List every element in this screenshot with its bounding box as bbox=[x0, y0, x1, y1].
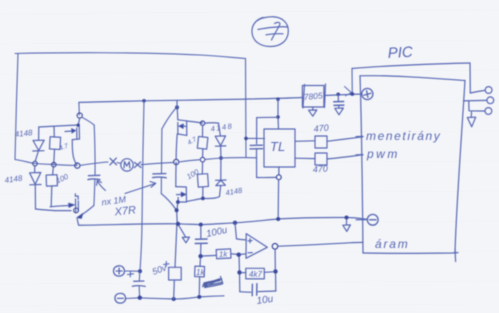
resistor R6 470 lower bbox=[295, 153, 363, 165]
svg-text:TL: TL bbox=[270, 139, 285, 154]
svg-text:menetirány: menetirány bbox=[366, 129, 441, 143]
feedback loop bbox=[239, 249, 276, 296]
wire minus circle to rail bbox=[126, 297, 140, 300]
battery symbol bbox=[128, 271, 146, 297]
transistor Q4 N-FET bottom-right bbox=[176, 162, 203, 223]
wire: battery + vertical bbox=[140, 101, 144, 271]
X mark 2 bbox=[134, 162, 141, 168]
wire: source node diagonal to cap string bbox=[82, 117, 95, 125]
X mark 1 bbox=[110, 158, 117, 165]
svg-text:4148: 4148 bbox=[14, 128, 33, 139]
PIC right pins bbox=[464, 97, 494, 127]
capacitor decoupling at 7805 output bbox=[334, 93, 344, 115]
plus circle bbox=[114, 266, 125, 276]
page number 7 circled bbox=[252, 17, 288, 47]
wire: outer box bottom to diode junction bbox=[15, 160, 35, 164]
resistor R5 470 upper bbox=[295, 136, 363, 148]
wire opamp output to PIC bbox=[278, 243, 352, 247]
node dot right output top bbox=[174, 159, 179, 164]
capacitor C-right string upper bbox=[161, 129, 163, 173]
resistor R2 100 left bbox=[46, 167, 57, 207]
node: bus-battery junction bbox=[142, 99, 146, 103]
diode D2 left bottom 4148 bbox=[30, 166, 55, 211]
crossed out text bbox=[203, 277, 223, 288]
node circle gate row left bbox=[74, 208, 79, 213]
arrowhead mark on bus bbox=[345, 87, 352, 96]
svg-text:pwm: pwm bbox=[366, 147, 400, 161]
resistor R4 100 right bbox=[197, 162, 208, 196]
outer feedback box wire (left/top/right) bbox=[15, 53, 246, 160]
node circle mid right resistor bbox=[200, 157, 205, 162]
diode D1 left top 4148 bbox=[33, 127, 44, 161]
bottom rail bbox=[140, 296, 224, 299]
svg-text:470: 470 bbox=[313, 122, 329, 134]
transistor Q3 P-FET top-right bbox=[176, 109, 202, 160]
transistor Q2 N-FET bottom-left bbox=[50, 194, 94, 225]
node dot N-FET source bbox=[176, 200, 180, 204]
wire: right source diagonal to cap bbox=[162, 109, 176, 129]
capacitor C-left vertical string bbox=[93, 125, 96, 175]
minus circle bbox=[115, 293, 126, 303]
diode D3 right top 4148 bbox=[205, 123, 226, 156]
wire opamp plus input from bus bbox=[235, 223, 246, 240]
resistor R8 1k vertical bbox=[195, 258, 205, 294]
bus continues after 7805 to plus bbox=[324, 94, 362, 96]
svg-text:7805: 7805 bbox=[303, 90, 323, 102]
PIC wire stubs left bbox=[352, 136, 367, 242]
diode D4 right bottom 4148 bbox=[203, 160, 226, 198]
node: bus-right-bridge junction bbox=[175, 105, 179, 109]
output row left wire with node circles bbox=[33, 161, 80, 168]
wire: corner down to source node bbox=[78, 102, 80, 115]
wire: cap diagonal to N-FET source node bbox=[161, 194, 176, 210]
svg-text:1k: 1k bbox=[196, 268, 205, 277]
wire: bus junction up to PIC outer top wire bbox=[351, 68, 353, 94]
wire: outer box right to TL input bbox=[246, 137, 265, 139]
svg-text:1k: 1k bbox=[219, 250, 229, 259]
inner top bus wire bbox=[79, 98, 302, 103]
motor M circle bbox=[121, 159, 133, 171]
svg-text:4k7: 4k7 bbox=[249, 270, 262, 279]
annotation nx 1M X7R with arrows bbox=[97, 181, 156, 194]
resistor R3 4.7 right bbox=[197, 121, 208, 157]
capacitor C-left plates bbox=[88, 174, 99, 176]
node dot below 100u bbox=[198, 254, 202, 258]
resistor R9 4k7 feedback bbox=[242, 268, 274, 279]
svg-text:áram: áram bbox=[375, 237, 410, 251]
ground arrow right bbox=[343, 220, 351, 232]
minus terminal circle bbox=[367, 214, 378, 225]
wire plus circle to battery bbox=[125, 270, 140, 272]
node: bus-TL junction bbox=[276, 97, 280, 101]
resistor R1 4.7 left bbox=[49, 126, 60, 163]
mid row wire right bridge to TL bracket bbox=[179, 158, 257, 162]
plus terminal circle bbox=[362, 88, 373, 99]
wire X to M bbox=[117, 163, 121, 164]
resistor R7 1k horizontal bbox=[203, 249, 239, 259]
capacitor C-right plates bbox=[153, 173, 166, 175]
node dot row2 resistor bottom bbox=[201, 197, 205, 201]
wire M row crossing battery vertical to right output bbox=[141, 162, 174, 164]
gnd bus node dots bbox=[176, 222, 180, 226]
node dot mid right diode bbox=[219, 156, 223, 160]
ground arrow mid bbox=[179, 226, 190, 243]
node circle top left bridge bbox=[77, 113, 82, 118]
svg-text:X7R: X7R bbox=[113, 204, 137, 218]
wire: output row to X and M bbox=[80, 162, 108, 165]
svg-text:470: 470 bbox=[312, 163, 328, 174]
transistor Q1 P-FET top-left bbox=[39, 118, 80, 164]
svg-text:PIC: PIC bbox=[387, 44, 413, 62]
